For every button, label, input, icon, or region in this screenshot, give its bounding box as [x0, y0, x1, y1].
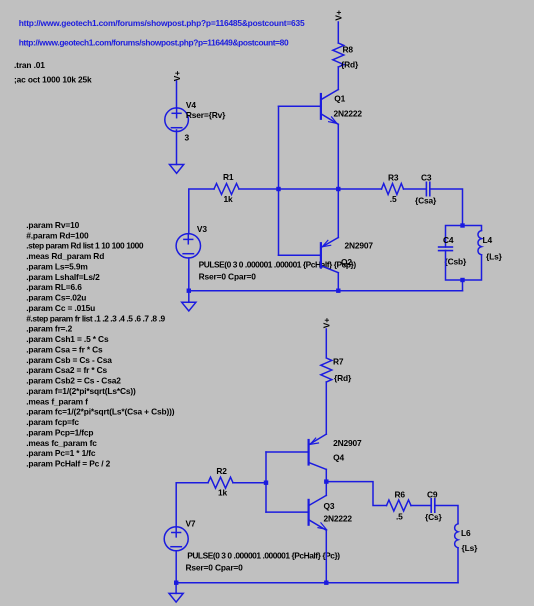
wire Q2 collector down [337, 273, 339, 291]
svg-text:V+: V+ [172, 71, 182, 82]
wire emitter node to R3 [338, 188, 381, 190]
node base bus / R2 [264, 481, 268, 485]
wire R2 to bus [233, 482, 266, 484]
svg-text:.param RL=6.6: .param RL=6.6 [26, 282, 82, 292]
svg-text:.param Cs=.02u: .param Cs=.02u [26, 293, 86, 303]
svg-text:.param fr=.2: .param fr=.2 [26, 324, 72, 334]
wire C9 to L6 [436, 506, 459, 524]
resistor R7 [321, 358, 332, 382]
svg-text:C9: C9 [427, 490, 438, 500]
svg-text:.param PcHalf = Pc / 2: .param PcHalf = Pc / 2 [26, 459, 110, 469]
svg-text:R8: R8 [343, 44, 354, 54]
wire V3 to rail [188, 258, 190, 291]
ground below V3 [182, 291, 196, 311]
svg-text:C4: C4 [443, 235, 454, 245]
svg-text:.param Csh1 = .5 * Cs: .param Csh1 = .5 * Cs [26, 334, 109, 344]
net flag V+ (top of R8) [333, 10, 343, 21]
svg-text:2N2907: 2N2907 [345, 241, 374, 251]
svg-text:{Cs}: {Cs} [425, 512, 443, 522]
wire ground rail bottom circuit [176, 582, 458, 584]
resistor R2 [208, 477, 233, 488]
directive .param block [26, 220, 175, 469]
resistor R8 [333, 43, 344, 67]
transistor Q1 2N2222 [321, 90, 338, 125]
svg-text:2N2222: 2N2222 [334, 109, 363, 119]
ground below V7 [169, 583, 183, 602]
transistor Q4 2N2907 [309, 434, 327, 469]
wire tank top bracket [446, 226, 482, 248]
svg-text:V4: V4 [186, 100, 196, 110]
svg-text:2N2222: 2N2222 [324, 514, 353, 524]
svg-text:R6: R6 [395, 490, 406, 500]
svg-text:.param Cc = .015u: .param Cc = .015u [26, 303, 95, 313]
wire R1 to bus [239, 188, 279, 190]
wire Q3 emitter down [325, 530, 327, 583]
svg-text:C3: C3 [421, 172, 432, 182]
svg-text:.meas Rd_param Rd: .meas Rd_param Rd [26, 251, 104, 261]
svg-text:.param Pc=1 * 1/fc: .param Pc=1 * 1/fc [26, 448, 96, 458]
node Q2 rail [336, 289, 340, 293]
svg-text:R1: R1 [223, 172, 234, 182]
svg-text:L6: L6 [461, 528, 471, 538]
node V7 rail [174, 581, 178, 585]
svg-text:.param Csa2 = fr * Cs: .param Csa2 = fr * Cs [26, 365, 107, 375]
wire R3 to C3 [404, 188, 426, 190]
svg-text:R2: R2 [216, 466, 227, 476]
wire V+ to V4 [176, 81, 178, 108]
inductor L4 [478, 231, 482, 255]
wire base bus top [278, 106, 280, 255]
node collectors [324, 479, 328, 483]
svg-text:.param Ls=5.9m: .param Ls=5.9m [26, 262, 87, 272]
wire V7 to rail [175, 551, 177, 583]
svg-text:Rser=0 Cpar=0: Rser=0 Cpar=0 [199, 271, 257, 281]
wire Q3 base [266, 511, 309, 513]
wire tank bottom to rail [462, 280, 464, 291]
wire R8 to Q1 collector [337, 67, 339, 90]
node Q3 rail [324, 581, 328, 585]
wire tank bottom bracket [446, 251, 482, 281]
voltage source V4 [165, 108, 189, 132]
wire V+ to R8 [337, 22, 339, 43]
wire collectors to R6 (jog) [326, 482, 386, 506]
svg-text:Q2: Q2 [341, 257, 352, 267]
svg-text:#.step param fr list .1 .2 .3: #.step param fr list .1 .2 .3 .4 .5 .6 .… [26, 313, 165, 323]
voltage source V3 [176, 234, 200, 258]
svg-text:{Ls}: {Ls} [486, 251, 503, 261]
wire Q4 base [266, 451, 309, 453]
net flag V+ (top of R7) [321, 318, 331, 329]
wire left of R1 [189, 189, 214, 234]
svg-text:R7: R7 [333, 356, 344, 366]
svg-text:.step param Rd list 1 10 100 1: .step param Rd list 1 10 100 1000 [26, 241, 144, 251]
svg-text:Q1: Q1 [334, 94, 345, 104]
svg-text:.5: .5 [396, 511, 403, 521]
svg-text:.param Csb = Cs - Csa: .param Csb = Cs - Csa [26, 355, 112, 365]
svg-text:;ac oct 1000 10k 25k: ;ac oct 1000 10k 25k [14, 75, 92, 85]
transistor Q2 2N2907 [321, 238, 338, 273]
node emitters / R3 [336, 187, 340, 191]
node tank top [460, 223, 464, 227]
svg-text:V+: V+ [321, 318, 331, 329]
capacitor C3 [426, 182, 429, 195]
inductor L6 [455, 524, 458, 548]
svg-text:.param Lshalf=Ls/2: .param Lshalf=Ls/2 [26, 272, 100, 282]
svg-text:Rser=0 Cpar=0: Rser=0 Cpar=0 [186, 563, 244, 573]
wire Q2 base [279, 254, 321, 256]
svg-text:L4: L4 [483, 235, 493, 245]
resistor R6 [387, 500, 412, 511]
svg-text:#.param Rd=100: #.param Rd=100 [26, 230, 89, 240]
svg-text:1k: 1k [218, 488, 228, 498]
wire R6 to C9 [411, 505, 431, 507]
svg-text:.param Rv=10: .param Rv=10 [26, 220, 79, 230]
svg-text:V7: V7 [186, 519, 196, 529]
svg-text:{Csb}: {Csb} [445, 257, 467, 267]
net flag V+ (top of V4) [172, 71, 182, 82]
svg-text:{Csa}: {Csa} [415, 196, 437, 206]
svg-text:1k: 1k [224, 194, 234, 204]
svg-text:{Ls}: {Ls} [462, 543, 479, 553]
svg-text:Q4: Q4 [333, 452, 344, 462]
svg-text:.param fcp=fc: .param fcp=fc [26, 417, 79, 427]
wire V+ to R7 [325, 329, 327, 357]
svg-text:.param Csa = fr * Cs: .param Csa = fr * Cs [26, 344, 103, 354]
svg-text:V+: V+ [333, 10, 343, 21]
svg-text:.param Pcp=1/fcp: .param Pcp=1/fcp [26, 427, 93, 437]
wire ground rail top circuit [189, 290, 463, 292]
svg-text:V3: V3 [197, 224, 207, 234]
svg-text:.meas f_param f: .meas f_param f [26, 396, 88, 406]
resistor R1 [214, 184, 239, 195]
svg-text:.param Csb2 = Cs - Csa2: .param Csb2 = Cs - Csa2 [26, 376, 121, 386]
wire R7 to Q4 emitter [325, 382, 327, 434]
svg-text:{Rd}: {Rd} [341, 60, 359, 70]
node V3 rail [187, 289, 191, 293]
svg-text:2N2907: 2N2907 [333, 438, 362, 448]
svg-text:PULSE(0 3 0 .000001 .000001 {P: PULSE(0 3 0 .000001 .000001 {PcHalf} {Pc… [199, 259, 357, 269]
node tank bottom [460, 278, 464, 282]
svg-text:3: 3 [185, 132, 190, 142]
wire Q1 base [279, 105, 321, 107]
svg-text:Rser={Rv}: Rser={Rv} [186, 110, 226, 120]
svg-text:.5: .5 [390, 194, 397, 204]
resistor R3 [382, 184, 404, 195]
svg-text:{Rd}: {Rd} [334, 373, 352, 383]
wire Q1 emitter down [337, 124, 339, 237]
capacitor C4 [439, 247, 453, 251]
transistor Q3 2N2222 [309, 495, 327, 530]
capacitor C9 [431, 499, 435, 512]
svg-text:http://www.geotech1.com/forums: http://www.geotech1.com/forums/showpost.… [19, 38, 289, 48]
wire bus to emitter node [279, 188, 339, 190]
svg-text:.param fc=1/(2*pi*sqrt(Ls*(Csa: .param fc=1/(2*pi*sqrt(Ls*(Csa + Csb))) [26, 407, 175, 417]
svg-text:.tran .01: .tran .01 [14, 60, 45, 70]
wire left of R2 [176, 483, 208, 527]
svg-text:http://www.geotech1.com/forums: http://www.geotech1.com/forums/showpost.… [19, 18, 305, 28]
wire Q4 collector down [325, 469, 327, 495]
ground below V4 [170, 165, 184, 174]
wire C3 right and down [430, 189, 462, 226]
node base bus / R1 [276, 187, 280, 191]
wire base bus bottom circuit [265, 452, 267, 512]
wire L6 to rail [457, 548, 459, 583]
svg-text:.meas fc_param fc: .meas fc_param fc [26, 438, 97, 448]
svg-text:.param f=1/(2*pi*sqrt(Ls*Cs)): .param f=1/(2*pi*sqrt(Ls*Cs)) [26, 386, 136, 396]
svg-text:PULSE(0 3 0 .000001 .000001 {P: PULSE(0 3 0 .000001 .000001 {PcHalf} {Pc… [187, 551, 340, 561]
svg-text:R3: R3 [388, 172, 399, 182]
wire V4 to ground [176, 130, 178, 165]
voltage source V7 [164, 527, 188, 551]
svg-text:Q3: Q3 [324, 501, 335, 511]
